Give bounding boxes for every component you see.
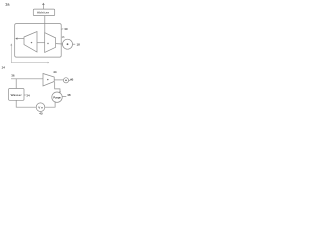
svg-text:18: 18: [77, 43, 81, 47]
svg-text:Ve: Ve: [38, 105, 43, 109]
svg-text:16: 16: [62, 35, 65, 39]
svg-text:Pumpe: Pumpe: [53, 95, 61, 99]
svg-text:38: 38: [67, 93, 71, 97]
svg-text:34: 34: [26, 93, 30, 97]
svg-text:24: 24: [2, 66, 6, 70]
svg-text:36: 36: [11, 73, 15, 77]
svg-text:Abhitze: Abhitze: [37, 10, 49, 14]
svg-text:30: 30: [64, 27, 68, 31]
svg-text:44: 44: [53, 70, 57, 74]
svg-text:Wasser: Wasser: [11, 93, 22, 97]
svg-text:1a: 1a: [5, 1, 10, 6]
svg-text:46: 46: [70, 78, 74, 82]
svg-text:40: 40: [39, 112, 43, 116]
